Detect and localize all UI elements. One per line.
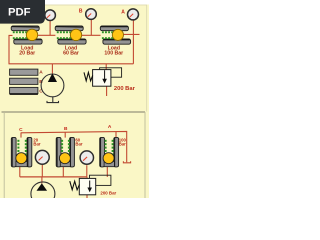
wire: relief1 drain	[106, 86, 108, 96]
separator line between panels	[2, 111, 146, 113]
wire: tick C	[20, 133, 22, 138]
label Load 60 Bar	[63, 45, 79, 56]
svg-text:60 Bar: 60 Bar	[63, 50, 79, 56]
label 100 Bar S3	[119, 137, 127, 146]
gauge G2 panel1	[86, 9, 97, 20]
wire: bottom bus panel 1	[9, 63, 134, 65]
label 20 Bar S1	[33, 137, 40, 146]
wire: pump1 riser	[51, 64, 53, 74]
load station S3	[100, 137, 119, 167]
wire: S2 outlet	[62, 166, 64, 177]
wire: relief2 riser	[86, 177, 88, 179]
wire: A2-A3 connector	[81, 34, 101, 36]
relief valve V2	[70, 175, 111, 195]
svg-text:200 Bar: 200 Bar	[114, 86, 136, 92]
svg-text:Bar: Bar	[33, 142, 40, 147]
wire: S3 outlet	[106, 166, 108, 177]
wire: tick B	[64, 132, 66, 138]
wire: relief2 drain	[86, 195, 88, 198]
gauge G3 panel1	[128, 9, 139, 20]
wire: tick A	[115, 132, 117, 138]
svg-text:200 Bar: 200 Bar	[100, 191, 116, 196]
gauge G2 panel2	[80, 151, 93, 164]
load station S1	[11, 137, 32, 167]
wire: gauge1 stem	[49, 20, 51, 36]
tank symbol right	[123, 161, 130, 163]
page background	[0, 0, 149, 198]
label Load 20 Bar	[19, 45, 35, 56]
load valve A2	[55, 26, 86, 44]
wire: top bus panel 2 with right drop	[21, 131, 127, 162]
svg-text:Bar: Bar	[75, 142, 82, 147]
svg-text:A: A	[108, 124, 112, 130]
pump P2	[31, 182, 55, 206]
svg-text:A: A	[39, 70, 43, 76]
tank symbol under pump P1	[47, 97, 59, 103]
panel 2 left border	[3, 112, 5, 198]
svg-text:C: C	[19, 127, 23, 133]
label Load 100 Bar	[104, 45, 123, 56]
svg-text:PDF: PDF	[8, 7, 31, 19]
svg-text:Bar: Bar	[119, 142, 126, 147]
gauge G1 panel2	[35, 150, 49, 164]
svg-text:B: B	[79, 8, 83, 14]
wire: A1-A2 connector	[37, 34, 55, 36]
PDF badge	[0, 0, 45, 24]
svg-text:B: B	[64, 126, 68, 132]
pump P1	[41, 73, 64, 97]
load valve A1	[11, 26, 42, 44]
svg-text:A: A	[121, 9, 125, 15]
wire: pump2 riser	[41, 177, 43, 184]
wire: S1 outlet	[19, 166, 21, 177]
panel 2 right border	[144, 112, 146, 198]
label 60 Bar S2	[75, 137, 82, 146]
load station S2	[56, 137, 74, 167]
wire: left supply elbow	[9, 35, 13, 63]
wire: relief1 riser	[105, 64, 107, 70]
gauge G1 panel1	[45, 10, 56, 21]
svg-text:100 Bar: 100 Bar	[104, 50, 123, 56]
wire: gauge stems panel 2	[42, 165, 87, 177]
wire: bottom bus panel 2	[20, 176, 87, 178]
wire: gauge3 stem long drop to bus	[132, 20, 134, 64]
relief valve V1	[84, 68, 122, 86]
tank manifold box	[10, 69, 38, 94]
panel 1 top border	[1, 4, 147, 6]
wire: A3 right stub	[123, 33, 140, 35]
panel 1 right border	[146, 5, 148, 112]
wire: gauge2 stem	[90, 19, 92, 35]
svg-text:20 Bar: 20 Bar	[19, 50, 35, 56]
load valve A3	[100, 26, 130, 44]
